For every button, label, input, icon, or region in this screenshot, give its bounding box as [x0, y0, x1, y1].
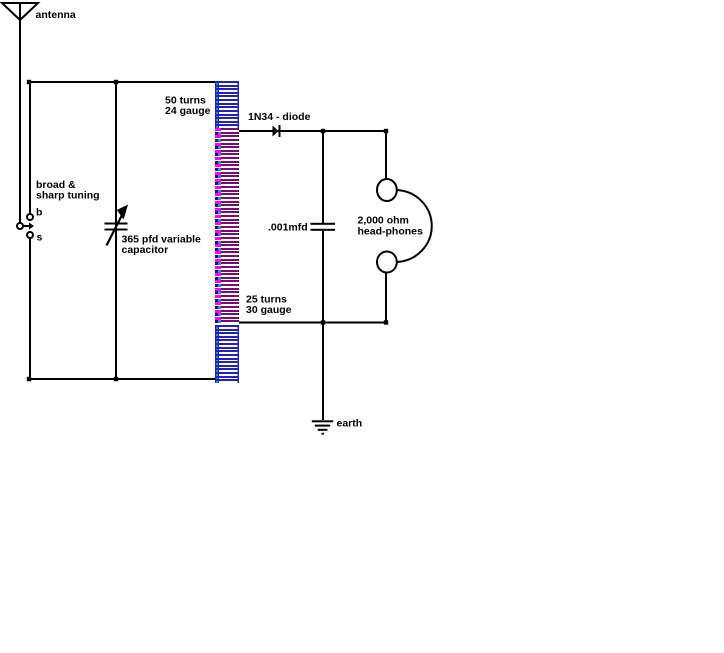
wire: bypass capacitor branch upper [322, 131, 324, 223]
switch wiper arrow [24, 223, 35, 230]
svg-text:.001mfd: .001mfd [268, 222, 308, 234]
wire: left branch upper segment (top bus to terminal b) [29, 82, 31, 214]
svg-text:capacitor: capacitor [122, 244, 169, 256]
wire: earth lead [322, 323, 324, 421]
junction: lower bus / earth branch [321, 320, 325, 324]
ground: earth symbol [312, 420, 333, 434]
wire: variable-capacitor branch vertical [115, 82, 117, 380]
svg-text:sharp tuning: sharp tuning [36, 190, 100, 202]
switch terminal b [27, 214, 33, 220]
headphones: 2,000 ohm head-phones [377, 179, 432, 273]
wire: left branch lower segment (terminal s to bottom bus) [29, 239, 31, 381]
svg-text:b: b [36, 207, 42, 219]
svg-text:1N34 - diode: 1N34 - diode [248, 111, 311, 123]
wire: top horizontal bus to coil top [29, 81, 216, 83]
wire: headphone branch top vertical [385, 131, 387, 180]
wire: antenna lead down to switch pole [19, 3, 21, 223]
wire: bypass capacitor branch lower [322, 231, 324, 323]
svg-text:24 gauge: 24 gauge [165, 105, 211, 117]
antenna [2, 3, 38, 20]
inductor L1 bottom section: 25 turns 30 gauge (blue) [215, 325, 239, 383]
inductor L1 middle section (purple winding) [215, 128, 239, 323]
junction: diode bus / headphone branch corner [384, 129, 388, 133]
switch terminal s [27, 232, 33, 238]
junction: bottom-left node [27, 377, 31, 381]
junction: bottom of variable-capacitor branch [114, 377, 118, 381]
junction: top-left node [27, 80, 31, 84]
inductor L1 top section: 50 turns 24 gauge (blue) [215, 81, 239, 128]
wire: bottom horizontal bus [29, 378, 215, 380]
svg-text:30 gauge: 30 gauge [246, 304, 292, 316]
wire: coil bottom tap to headphone bottom (lower right bus) [239, 322, 386, 324]
svg-text:head-phones: head-phones [358, 226, 423, 238]
wire: headphone branch bottom vertical [385, 273, 387, 323]
junction: top of variable-capacitor branch [114, 80, 118, 84]
junction: diode bus / bypass-capacitor branch [321, 129, 325, 133]
junction: lower bus / headphone bottom corner [384, 320, 388, 324]
wire: coil tap to diode (top right bus) [239, 130, 386, 132]
capacitor C2: .001mfd [311, 223, 336, 231]
svg-text:antenna: antenna [36, 9, 76, 21]
capacitor C1: 365 pfd variable [105, 205, 129, 246]
switch pole [17, 223, 23, 229]
diode D1 1N34 [273, 125, 281, 137]
svg-text:s: s [37, 232, 43, 244]
svg-text:earth: earth [337, 418, 363, 430]
